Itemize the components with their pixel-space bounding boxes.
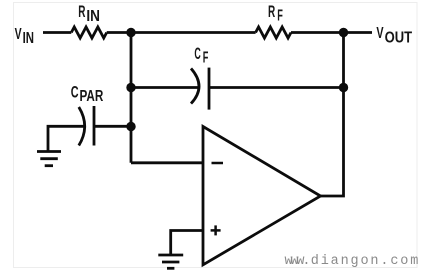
label RF	[268, 3, 283, 25]
wire plus input to ground	[171, 231, 203, 255]
wire minus input	[131, 161, 203, 164]
watermark www.diangon.com	[285, 254, 419, 269]
ground GND2	[158, 255, 183, 268]
wire CPAR left to ground	[48, 126, 84, 151]
resistor RIN	[71, 27, 106, 38]
svg-text:IN: IN	[23, 30, 34, 47]
wire VOUT lead	[344, 31, 373, 34]
svg-text:PAR: PAR	[80, 88, 104, 105]
wire CF right	[209, 86, 344, 89]
node VOUT label	[376, 25, 412, 46]
svg-text:F: F	[277, 7, 283, 24]
wire CPAR right	[94, 125, 131, 128]
svg-text:diangon.com: diangon.com	[311, 254, 419, 269]
svg-text:R: R	[268, 3, 275, 21]
wire output feedback	[321, 33, 344, 197]
svg-text:IN: IN	[86, 8, 100, 25]
junction VOUT node	[339, 28, 348, 37]
label CPAR	[71, 84, 104, 106]
svg-text:V: V	[376, 25, 384, 42]
node VIN label	[15, 26, 34, 47]
junction CF tap	[126, 83, 135, 92]
svg-text:OUT: OUT	[385, 29, 413, 46]
junction CPAR tap	[126, 122, 135, 131]
op-amp U1	[203, 127, 321, 265]
svg-text:F: F	[203, 49, 209, 66]
wire RIN to RF	[107, 31, 256, 34]
svg-text:V: V	[15, 26, 22, 43]
svg-text:C: C	[194, 45, 201, 63]
svg-text:www.: www.	[285, 254, 311, 269]
label RIN	[78, 3, 100, 25]
svg-text:C: C	[71, 84, 79, 102]
wire CF left	[131, 86, 198, 89]
resistor RF	[256, 27, 291, 38]
svg-text:R: R	[78, 3, 85, 21]
ground GND1	[37, 152, 61, 166]
capacitor CF	[191, 68, 209, 110]
junction node inverting top	[126, 28, 135, 37]
label CF	[194, 45, 208, 67]
junction CF to output	[339, 83, 348, 92]
wire inverting input vertical	[130, 33, 133, 163]
wire RF to VOUT node	[291, 31, 344, 34]
wire VIN lead	[43, 31, 71, 34]
capacitor CPAR	[79, 106, 94, 146]
